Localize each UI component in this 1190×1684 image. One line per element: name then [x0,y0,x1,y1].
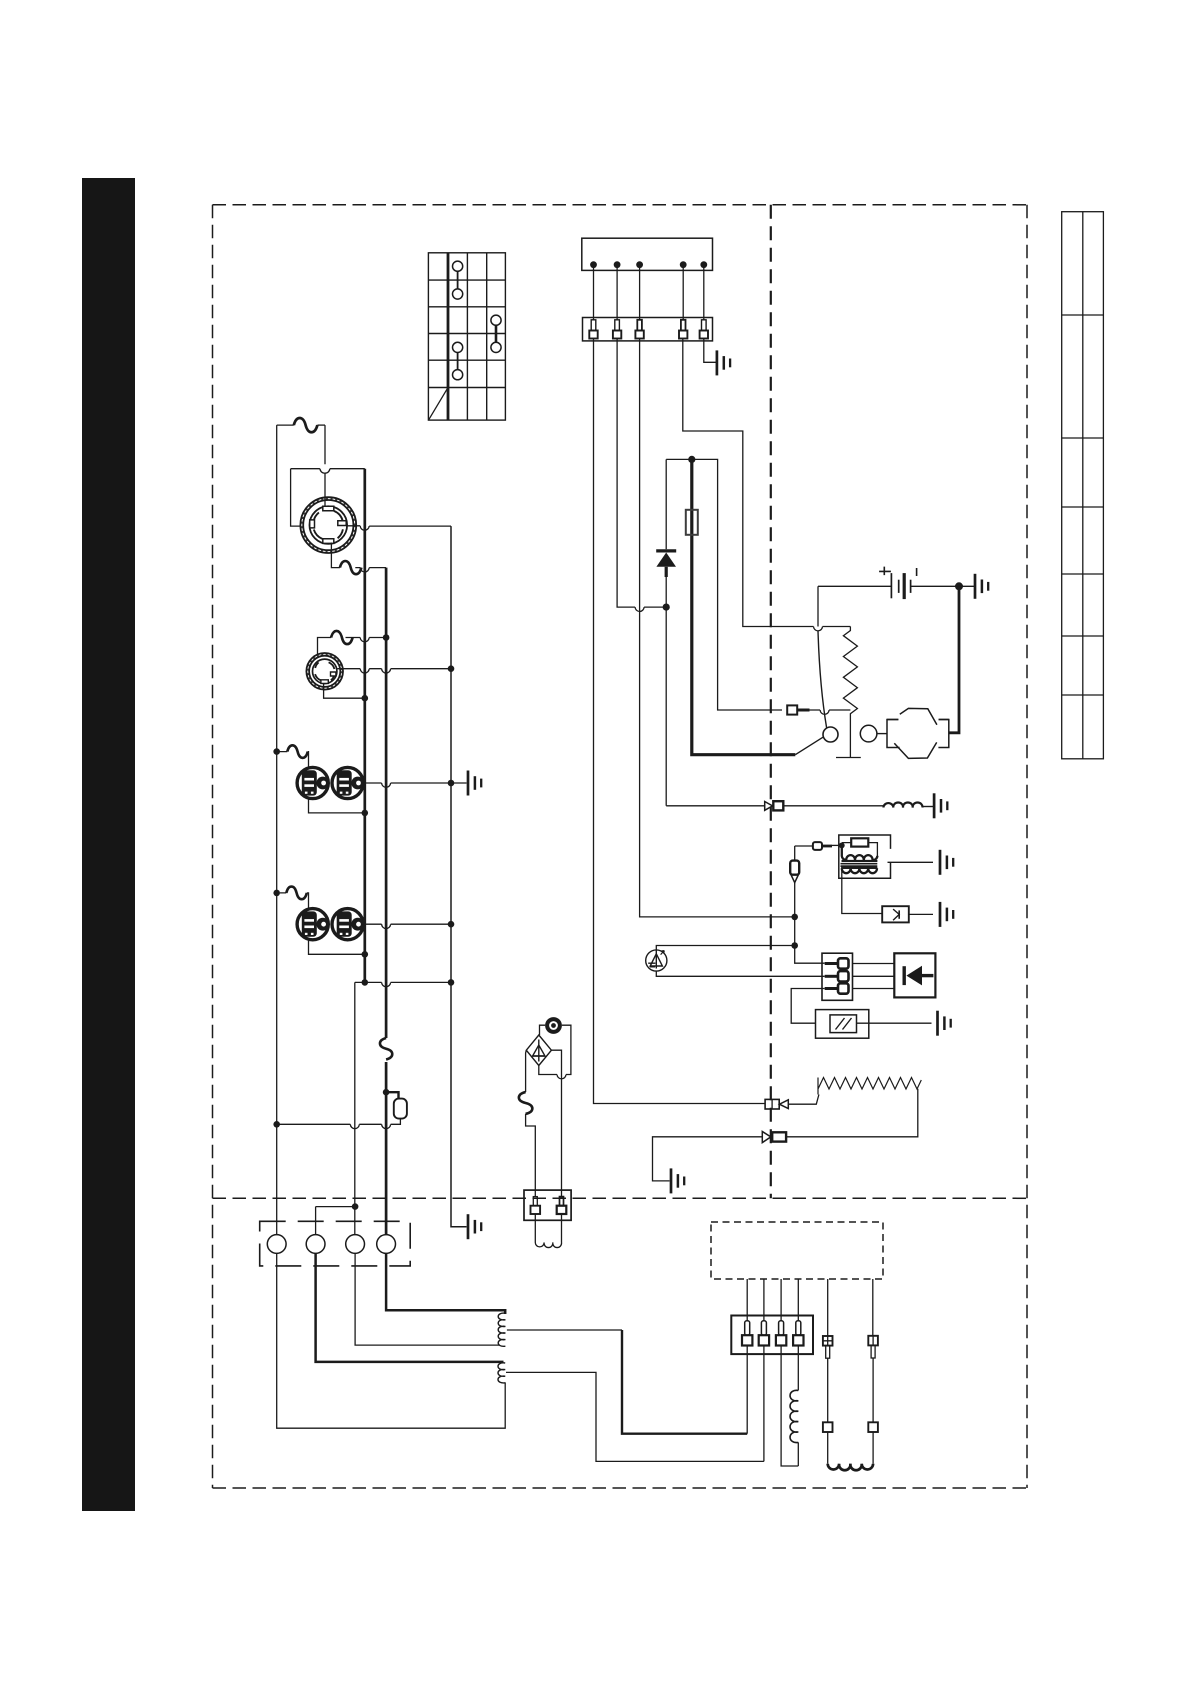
duplex receptacle D2 outlet a [297,909,329,940]
4-pin terminal 4 [793,1321,803,1346]
wire break symbol [287,745,308,758]
starter motor brush circle [860,725,877,742]
wire thick to pivot [795,737,824,755]
wire choke line [666,805,883,807]
junction dot C duplex2 [448,921,455,928]
twist-lock receptacle R1 [300,497,356,553]
battery feed wire [817,586,819,626]
spade terminal resistor return [787,705,809,714]
4-pin terminal 3 [776,1321,786,1346]
wire connector to heater element [788,1095,819,1105]
pilot lamp [545,1017,562,1034]
oil level sensor [646,950,667,971]
starter motor M armature [894,708,937,758]
wire coil ground output [888,861,934,863]
hop marks y1124 [350,1124,390,1128]
junction dot A duplex2 [362,951,369,958]
junction dot A receptacle R2 [362,695,369,702]
exciter coil [790,1390,798,1442]
right reference table [1062,212,1104,759]
ground spark plug [940,902,953,927]
wires block to CDI [853,964,895,989]
wire terminal3 to condenser [791,989,825,1024]
wire spade to coil [795,845,813,847]
circuit breaker CB2 [306,1235,325,1254]
resistor lower stub and bar [836,720,861,758]
wire duplex1 bottom to bus A [309,797,365,813]
wire duplex2 feed [280,893,309,910]
engine connector block [822,953,853,1000]
switch table contact circles col2 rows1-2 [453,261,463,299]
condenser box [816,1010,869,1039]
connector block terminal 3 [825,983,849,993]
wire CB1 to coil2 bottom [277,1253,506,1428]
circuit breaker enclosure [260,1221,411,1266]
connector block terminal 1 [825,958,849,968]
wire terminal4 to starter switch [683,339,851,627]
wire break symbol [331,631,353,644]
condenser connector box [524,1190,571,1220]
wire top loop to receptacle R1 [277,425,325,509]
wire R1 right [346,526,451,531]
coil secondary winding [842,868,877,873]
wire 4-pin t1 down [746,1346,748,1434]
switch table diagonal mark [429,388,448,419]
starter motor frame [887,720,949,748]
ground heater return [671,1168,684,1193]
heater return connector pair [762,1132,786,1143]
generator sub coil W2 [498,1363,505,1383]
wire protector bottom [277,1119,401,1125]
wire 4-pin t4 to exciter coil [797,1346,799,1391]
circuit breaker CB4 [377,1235,396,1254]
wire terminal3 to ignition feed [640,339,795,917]
wire sensor bottom [656,971,824,976]
wire R2 bottom to bus A [324,684,365,699]
wire duplex2 right to bus C [361,924,451,928]
wire terminal2 to diode node [617,339,666,612]
junction dot A duplex1 [362,810,369,817]
twist-lock receptacle R2 [306,653,343,690]
junction dot C receptacle R2 [448,665,455,672]
connector strip [583,318,713,341]
wire break symbol [286,887,307,900]
wire terminal5 to ground [704,339,716,363]
terminal box contact dots [590,261,707,268]
heater element (zigzag) [818,1078,921,1095]
wire6 down [872,1358,874,1422]
wire lamp left to rectifier [540,1025,546,1035]
wire coil W2 output [506,1372,764,1461]
junction dot fuse top [688,456,695,463]
inline connector wire5 [823,1336,833,1358]
junction dot A end [362,979,369,986]
wire duplex1 feed [280,752,309,769]
diode D1 [656,459,676,607]
junction dot sensor line [791,942,798,949]
lamp coil winding [535,1214,561,1243]
junction dot diode bottom [663,604,670,611]
spade terminal ignition [813,842,832,850]
wire duplex1 right to ground [361,783,467,787]
duplex receptacle D2 outlet b [332,909,364,940]
switch table contact circles col2 rows4-5 [453,342,463,380]
ground bottom-left [468,1214,481,1239]
bus line A (thick) [363,469,366,983]
inline connector wire6 [868,1336,878,1358]
wire R1 feed box left [291,469,365,526]
wire R2 right [337,669,451,673]
wire return to ground [653,1137,763,1181]
thick wire battery minus to motor [949,586,959,733]
junction dot duplex1 feed [273,748,280,755]
wire break symbol [294,418,318,432]
generator main coil W1 [498,1313,505,1346]
wire terminal1 long drop [594,339,766,1104]
coil primary winding [842,845,878,860]
ground condenser [938,1011,951,1036]
dashed main border [213,205,1028,1488]
wire into coil primary [832,844,842,846]
dashed divider vertical [770,205,772,1199]
wire coil HT output [842,869,882,914]
relay loop top [666,459,782,710]
wire CB2 to coil2 top (thick) [316,1253,504,1362]
ignition coil box [839,835,891,878]
wire 4-pin t3 down [781,1346,798,1467]
wire diode node down to choke line [665,607,667,806]
engine 4-pin connector [731,1316,813,1355]
junction dot coil input [839,843,845,849]
wire rectifier right down to connector [551,1050,561,1196]
junction dot C duplex1 [448,780,455,787]
duplex receptacle D1 outlet a [297,767,329,798]
wire condenser to ground [857,1022,932,1024]
thick wire fuse to switch [692,459,796,754]
junction dot ignition feed [791,914,798,921]
junction dot B top [383,634,390,641]
hop mark battery lever wire [814,627,823,631]
connector pin R [560,1197,564,1206]
control unit terminal box [582,238,713,270]
wire break on bus B [380,1038,392,1060]
circuit protector CP (pill) [386,1092,398,1098]
engine control unit (dashed box) [711,1222,883,1279]
wire break symbol [340,561,362,574]
bullet connector ignition riser [790,861,799,883]
ground terminal5 [717,350,730,375]
duplex receptacle D1 outlet b [332,767,364,798]
junction dot protector tap [383,1089,390,1096]
heater plug connector pair [765,1099,788,1109]
circuit breaker CB1 [267,1235,286,1254]
ground ignition coil [940,850,953,875]
4-pin terminal 1 [742,1321,752,1346]
connector pair choke [765,801,784,810]
left rail [276,425,278,1235]
coil primary resistor [851,838,868,846]
wire resistor loop [842,843,878,857]
pad connector wire5 [823,1422,833,1432]
choke coil to ground [883,802,922,807]
wire5 down [827,1358,829,1422]
wire left leg to connector [526,1114,536,1197]
rectifier bridge (diamond) [526,1035,551,1066]
circuit breaker CB3 [346,1235,365,1254]
wire heater return [786,1089,918,1137]
junction dot C tie [448,979,455,986]
wires control unit to connector [747,1279,873,1336]
ground battery [975,574,988,599]
junction dot duplex2 feed [273,890,280,897]
fuse F1 [686,510,698,535]
wire rectifier bottom to lamp right [539,1025,571,1079]
wire rectifier left leg [525,1050,528,1092]
wire CB3 to coil1 bottom [355,1253,499,1345]
CDI diode symbol [904,966,933,986]
spark plug SP [882,906,933,922]
starter switch pivot [823,727,838,742]
wire duplex2 bottom to bus A [309,938,365,954]
wire resistor bottom return [810,710,851,714]
wire battery terminals [818,585,974,587]
wire 4-pin t2 down [763,1346,765,1462]
junction dot left rail y1124 [273,1121,280,1128]
wire break symbol vertical [519,1092,533,1114]
wire CB2 branch [316,1206,356,1208]
wire R1 bottom to bus B [331,543,386,573]
connector pin L [533,1197,537,1206]
connector strip terminals [589,320,708,339]
dashed divider horizontal [213,1197,1028,1199]
wire brush to motor [877,733,887,735]
starter switch lever [818,631,827,728]
switch table contact circles col4 rows3-4 [491,315,501,352]
pad connector wire6 [868,1422,878,1432]
wire R2 top feed [318,638,387,654]
ground choke [934,793,947,818]
wire coil W1 output (thick L) [507,1329,622,1331]
pickup coil (thick scallops) [828,1432,873,1464]
resistor R (vertical zigzag) [843,627,857,721]
battery [879,567,917,600]
wires terminal box to connector strip [594,268,704,320]
bus line B (thick) [385,568,388,1239]
wire ignition riser [795,846,825,963]
junction dot CB branch [352,1203,359,1210]
left black sidebar [82,178,135,1511]
junction dot battery minus [955,582,963,590]
wire sensor top [656,946,794,950]
wire neutral tie y982 [355,982,451,1234]
switch position table SW1 [428,253,505,420]
bus line C [451,526,467,1227]
CDI unit box [894,953,935,997]
ground duplex outlets [468,771,481,796]
wire CB4 to coil1 top (thick) [386,1253,505,1314]
coil core [841,864,878,866]
4-pin terminal 2 [759,1321,769,1346]
connector block terminal 2 [825,971,849,981]
